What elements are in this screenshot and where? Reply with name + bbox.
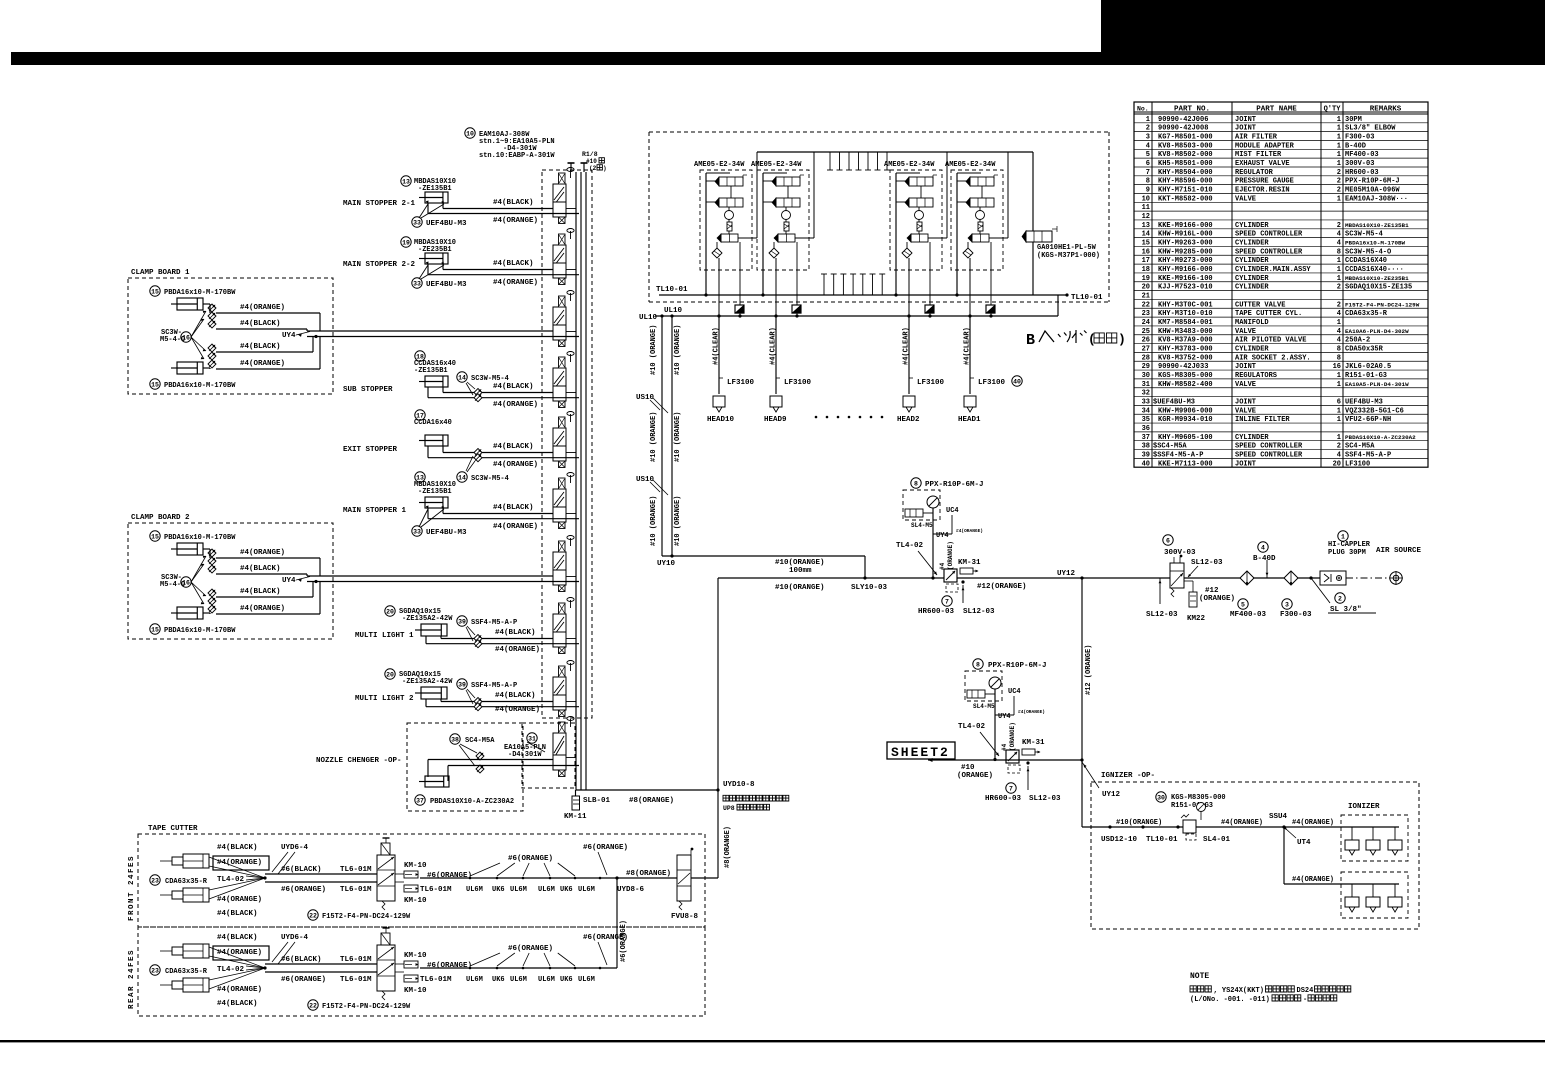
svg-text:15: 15	[151, 533, 159, 540]
ionizer nozzle 2-3	[1394, 884, 1396, 897]
svg-text:FRONT 24FES: FRONT 24FES	[128, 855, 136, 921]
svg-text:VALVE: VALVE	[1235, 328, 1256, 336]
regulator HR600-03 (7) #1	[942, 596, 952, 606]
svg-text:90990-42J033: 90990-42J033	[1158, 363, 1208, 371]
svg-text:KM-10: KM-10	[404, 952, 427, 960]
svg-text:B-40D: B-40D	[1253, 555, 1276, 563]
solenoid valve mid group 4	[970, 198, 994, 207]
svg-text:1: 1	[1337, 372, 1341, 380]
svg-text:40: 40	[1013, 378, 1021, 385]
svg-text:15: 15	[151, 288, 159, 295]
svg-text:19: 19	[402, 239, 410, 246]
svg-text:#4(ORANGE): #4(ORANGE)	[217, 896, 262, 904]
wire #4(ORANGE)	[428, 457, 579, 459]
svg-text:TL10-01: TL10-01	[656, 286, 688, 294]
svg-text:39: 39	[1142, 451, 1150, 459]
svg-text:1: 1	[1337, 416, 1341, 424]
svg-text:KM-31: KM-31	[958, 559, 981, 567]
svg-text:UL10: UL10	[639, 314, 658, 322]
svg-text:IONIZER: IONIZER	[1348, 803, 1380, 811]
joint LF3100 HEAD9	[776, 377, 780, 379]
manifold valve station 3	[553, 307, 566, 325]
speed controllers lower cluster	[208, 589, 216, 597]
nozzle HEAD9	[770, 396, 782, 407]
svg-text:PBDAS10X10-A-ZC230A2: PBDAS10X10-A-ZC230A2	[430, 798, 514, 806]
svg-text:SC3W-M5-4: SC3W-M5-4	[471, 375, 509, 383]
svg-text:KM-10: KM-10	[404, 862, 427, 870]
svg-text:JOINT: JOINT	[1235, 363, 1256, 371]
svg-text:KV8-M8502-000: KV8-M8502-000	[1158, 151, 1213, 159]
svg-text:UY12: UY12	[1057, 570, 1076, 578]
svg-text:No.: No.	[1137, 106, 1149, 113]
svg-text:PBDAS10X10-A-ZC230A2: PBDAS10X10-A-ZC230A2	[1345, 434, 1416, 441]
svg-text:PBDA16x10-M-170BW: PBDA16x10-M-170BW	[164, 382, 236, 390]
ionizer nozzle 1-2	[1372, 827, 1374, 840]
svg-text:): )	[1118, 332, 1126, 347]
svg-text:REAR 24FES: REAR 24FES	[128, 949, 136, 1009]
svg-text:JOINT: JOINT	[1235, 398, 1256, 406]
wire #4(CLEAR) HEAD9	[775, 316, 777, 394]
svg-text:UL6M: UL6M	[466, 976, 483, 984]
svg-text:4: 4	[1337, 328, 1341, 336]
svg-text:1: 1	[1337, 151, 1341, 159]
svg-text:13: 13	[1142, 222, 1150, 230]
svg-text:KGR-M9934-010: KGR-M9934-010	[1158, 416, 1213, 424]
svg-text:HEAD9: HEAD9	[764, 416, 787, 424]
svg-text:VALVE: VALVE	[1235, 407, 1256, 415]
wire #4(CLEAR) HEAD10	[718, 316, 720, 394]
wire UY4 pair to manifold	[307, 330, 553, 332]
svg-text:CYLINDER: CYLINDER	[1235, 434, 1269, 442]
speed controllers upper cluster	[208, 549, 216, 557]
nozzle HEAD1	[964, 396, 976, 407]
manifold valve station 4	[553, 368, 566, 386]
svg-text:GA010HE1-PL-5W: GA010HE1-PL-5W	[1037, 244, 1097, 252]
svg-text:14: 14	[458, 474, 466, 481]
svg-text:PBDA16x10-M-170BW: PBDA16x10-M-170BW	[164, 627, 236, 635]
ionizer nozzle 1-3	[1394, 827, 1396, 840]
svg-text:12: 12	[1142, 213, 1150, 221]
svg-text:UY4: UY4	[936, 532, 949, 540]
svg-text:HI-CAPPLER: HI-CAPPLER	[1328, 541, 1371, 549]
rail UL10	[655, 315, 1058, 317]
svg-text:CDA63x35-R: CDA63x35-R	[165, 878, 208, 886]
svg-text:R151-01-G3: R151-01-G3	[1345, 372, 1387, 380]
svg-text:#6(ORANGE): #6(ORANGE)	[281, 886, 326, 894]
svg-text:US10: US10	[636, 476, 655, 484]
wire SLB-01 #8(ORANGE)	[576, 789, 719, 791]
svg-text:KV8-M8503-000: KV8-M8503-000	[1158, 142, 1213, 150]
svg-text:KHY-M9263-000: KHY-M9263-000	[1158, 240, 1213, 248]
svg-text:#12(ORANGE): #12(ORANGE)	[977, 583, 1027, 591]
svg-text:33: 33	[413, 219, 421, 226]
svg-text:6: 6	[1146, 160, 1150, 168]
svg-text:3: 3	[1146, 134, 1150, 142]
svg-text:SL4-M5: SL4-M5	[973, 703, 995, 710]
svg-text:F15T2-F4-PN-DC24-129W: F15T2-F4-PN-DC24-129W	[322, 1003, 411, 1011]
vacuum generator group 4	[976, 211, 985, 220]
svg-text:23: 23	[151, 877, 159, 884]
svg-text:#10 (ORANGE): #10 (ORANGE)	[674, 496, 682, 546]
wires group 1	[705, 173, 707, 295]
cylinder tape cutter lower	[183, 888, 209, 902]
svg-text:KHW-M9906-000: KHW-M9906-000	[1158, 407, 1213, 415]
manifold top plugs R1/8	[570, 163, 572, 172]
svg-text:UL6M: UL6M	[510, 976, 527, 984]
note Japanese pipe port	[723, 795, 729, 801]
svg-text:1: 1	[1337, 407, 1341, 415]
svg-text:MIST FILTER: MIST FILTER	[1235, 151, 1282, 159]
svg-text:#6(ORANGE): #6(ORANGE)	[620, 920, 628, 962]
wire #4(ORANGE)	[426, 643, 579, 645]
dashed box ignizer	[1091, 782, 1419, 929]
svg-text:#6(BLACK): #6(BLACK)	[281, 866, 322, 874]
svg-text:1: 1	[1337, 160, 1341, 168]
pilot box group 1	[735, 305, 744, 313]
pilot box group 4	[986, 305, 995, 313]
svg-text:UK6: UK6	[492, 886, 505, 894]
svg-text:22: 22	[309, 912, 317, 919]
svg-text:KHY-M7151-010: KHY-M7151-010	[1158, 187, 1213, 195]
svg-text:UYD10-8: UYD10-8	[723, 781, 755, 789]
valve F15T2 cutter	[377, 945, 395, 991]
svg-text:CYLINDER: CYLINDER	[1235, 222, 1269, 230]
wire pair to cutter valve	[265, 873, 377, 875]
svg-text:JOINT: JOINT	[1235, 460, 1256, 468]
svg-text:#6(ORANGE): #6(ORANGE)	[583, 844, 628, 852]
wire #4(BLACK)	[443, 452, 553, 454]
svg-text:EXIT STOPPER: EXIT STOPPER	[343, 446, 398, 454]
svg-text:90990-42J006: 90990-42J006	[1158, 116, 1208, 124]
svg-text:KM-10: KM-10	[404, 897, 427, 905]
valve 300V-03 (6)	[1163, 535, 1173, 545]
filter group 2	[784, 222, 789, 231]
svg-text:SC3W-M5-4: SC3W-M5-4	[471, 475, 509, 483]
valve F15T2 ref (22)	[308, 1000, 318, 1010]
svg-text:UP8: UP8	[723, 805, 735, 812]
svg-text:UYD6-4: UYD6-4	[281, 934, 309, 942]
node UT4	[1286, 829, 1296, 838]
wire #4(ORANGE)	[428, 213, 579, 215]
svg-text:UC4: UC4	[1008, 688, 1021, 696]
svg-text:30PM: 30PM	[1345, 116, 1362, 124]
speed controller SSF4-M5-A-P (39) ML1	[457, 616, 467, 626]
svg-text:LF3100: LF3100	[917, 379, 945, 387]
speed controllers upper cluster	[208, 304, 216, 312]
svg-text:#10 (ORANGE): #10 (ORANGE)	[674, 412, 682, 462]
solenoid valve top group 4	[970, 177, 994, 186]
svg-text:CLAMP BOARD 2: CLAMP BOARD 2	[131, 514, 190, 522]
svg-text:UEF4BU-M3: UEF4BU-M3	[426, 220, 467, 228]
svg-text:(ORANGE): (ORANGE)	[957, 772, 993, 780]
svg-text:UYD8-6: UYD8-6	[617, 886, 645, 894]
vacuum generator group 3	[915, 211, 924, 220]
svg-text:#4(BLACK): #4(BLACK)	[493, 260, 534, 268]
svg-text:UL10: UL10	[664, 307, 683, 315]
svg-text:#4(ORANGE): #4(ORANGE)	[493, 523, 538, 531]
cylinder PBDA16x10 upper	[150, 531, 160, 541]
svg-text:#10(ORANGE): #10(ORANGE)	[775, 584, 825, 592]
svg-text:MAIN STOPPER 1: MAIN STOPPER 1	[343, 507, 407, 515]
svg-text:10: 10	[1142, 195, 1150, 203]
svg-text:SPEED CONTROLLER: SPEED CONTROLLER	[1235, 443, 1303, 451]
svg-text:40: 40	[1142, 460, 1150, 468]
svg-text:#4(CLEAR): #4(CLEAR)	[964, 327, 972, 365]
svg-text:#6(ORANGE): #6(ORANGE)	[508, 945, 553, 953]
svg-text:16: 16	[1333, 363, 1341, 371]
svg-text:16: 16	[182, 334, 190, 341]
svg-text:#4(ORANGE): #4(ORANGE)	[240, 549, 285, 557]
svg-text:KHW-M916L-000: KHW-M916L-000	[1158, 231, 1213, 239]
svg-text:9: 9	[1146, 187, 1150, 195]
svg-text:SL3/8" ELBOW: SL3/8" ELBOW	[1345, 125, 1396, 133]
svg-text:): )	[603, 165, 607, 172]
svg-text:UY12: UY12	[1102, 791, 1121, 799]
svg-text:SUB STOPPER: SUB STOPPER	[343, 386, 393, 394]
svg-text:20: 20	[1142, 284, 1150, 292]
svg-text:UK6: UK6	[560, 976, 573, 984]
svg-text:1: 1	[1337, 266, 1341, 274]
svg-text:#10(ORANGE): #10(ORANGE)	[775, 559, 825, 567]
svg-text:-ZE135B1: -ZE135B1	[414, 367, 448, 375]
svg-text:HR600-03: HR600-03	[985, 795, 1022, 803]
svg-text:#4(BLACK): #4(BLACK)	[217, 934, 258, 942]
svg-text:KV8-M37A9-000: KV8-M37A9-000	[1158, 337, 1213, 345]
dashed box ionizer 2	[1341, 872, 1408, 918]
nozzle HEAD2	[903, 396, 915, 407]
svg-text:31: 31	[528, 735, 536, 742]
joint LF3100 HEAD1	[970, 377, 974, 379]
svg-text:14: 14	[458, 374, 466, 381]
wire cutter main	[420, 877, 677, 879]
svg-text:AIR SOCKET 2.ASSY.: AIR SOCKET 2.ASSY.	[1235, 354, 1311, 362]
svg-text:$SC4-M5A: $SC4-M5A	[1153, 443, 1187, 451]
wire #4(BLACK)	[443, 208, 553, 210]
svg-text:8: 8	[1337, 345, 1341, 353]
svg-text:(ORANGE): (ORANGE)	[947, 541, 954, 570]
svg-text:SLY10-03: SLY10-03	[851, 584, 888, 592]
svg-text:AIR PILOTED VALVE: AIR PILOTED VALVE	[1235, 337, 1306, 345]
svg-text:MULTI LIGHT 1: MULTI LIGHT 1	[355, 632, 414, 640]
valve KM-11	[575, 790, 577, 796]
cylinder PBDA16x10 lower	[177, 362, 203, 374]
svg-text:TAPE CUTTER CYL.: TAPE CUTTER CYL.	[1235, 310, 1302, 318]
svg-text:#4(ORANGE): #4(ORANGE)	[495, 646, 540, 654]
svg-text:KKE-M7113-000: KKE-M7113-000	[1158, 460, 1213, 468]
svg-text:#4(CLEAR): #4(CLEAR)	[903, 327, 911, 365]
ionizer nozzle 2-2	[1372, 884, 1374, 897]
svg-text:MBDAS10X10-ZE235B1: MBDAS10X10-ZE235B1	[1345, 275, 1409, 282]
svg-text:KH5-M8501-000: KH5-M8501-000	[1158, 160, 1213, 168]
svg-text:HEAD1: HEAD1	[958, 416, 981, 424]
svg-text:SLB-01: SLB-01	[583, 797, 611, 805]
wire cutter main	[420, 967, 617, 969]
svg-text:TL4-02: TL4-02	[958, 723, 986, 731]
svg-text:33: 33	[413, 280, 421, 287]
svg-text:39: 39	[458, 618, 466, 625]
svg-text:24: 24	[1142, 319, 1150, 327]
svg-text:CYLINDER: CYLINDER	[1235, 275, 1269, 283]
svg-text:HR600-03: HR600-03	[918, 608, 955, 616]
svg-text:SPEED CONTROLLER: SPEED CONTROLLER	[1235, 248, 1303, 256]
svg-text:TL6-01M: TL6-01M	[340, 976, 372, 984]
valve SL4-M5 #2	[967, 690, 985, 698]
parts table	[1134, 102, 1428, 467]
svg-text:#4(BLACK): #4(BLACK)	[240, 343, 281, 351]
svg-text:#4(BLACK): #4(BLACK)	[240, 588, 281, 596]
check valve diamond group 3	[902, 248, 912, 258]
svg-text:#4(BLACK): #4(BLACK)	[493, 504, 534, 512]
svg-text:LF3100: LF3100	[727, 379, 755, 387]
svg-text:MULTI LIGHT 2: MULTI LIGHT 2	[355, 695, 414, 703]
svg-text:EA10A6-PLN-D4-302W: EA10A6-PLN-D4-302W	[1345, 328, 1409, 335]
svg-text:29: 29	[1142, 363, 1150, 371]
check valve diamond group 2	[769, 248, 779, 258]
svg-text:HEAD2: HEAD2	[897, 416, 920, 424]
svg-text:SPEED CONTROLLER: SPEED CONTROLLER	[1235, 231, 1303, 239]
svg-text:SHEET2: SHEET2	[891, 745, 950, 760]
svg-text:KM-31: KM-31	[1022, 739, 1045, 747]
svg-text:UY4: UY4	[282, 577, 296, 585]
svg-text:SL12-03: SL12-03	[1029, 795, 1061, 803]
pressure gauge PPX-R10P-6M-J (8) #2	[973, 659, 983, 669]
svg-text:HR600-03: HR600-03	[1345, 169, 1379, 177]
svg-text:#4(BLACK): #4(BLACK)	[493, 199, 534, 207]
svg-text:NOZZLE CHENGER -OP-: NOZZLE CHENGER -OP-	[316, 757, 402, 765]
svg-text:#4(BLACK): #4(BLACK)	[493, 443, 534, 451]
svg-text:1: 1	[1337, 381, 1341, 389]
svg-text:REMARKS: REMARKS	[1370, 106, 1402, 114]
svg-text:USD12-10: USD12-10	[1101, 836, 1138, 844]
svg-text:6: 6	[1337, 398, 1341, 406]
svg-text:PART NAME: PART NAME	[1256, 106, 1297, 114]
svg-text:REGULATOR: REGULATOR	[1235, 169, 1274, 177]
svg-text:CYLINDER: CYLINDER	[1235, 345, 1269, 353]
svg-text:KKT-M8582-000: KKT-M8582-000	[1158, 195, 1213, 203]
solenoid valve mid group 3	[909, 198, 933, 207]
clamp wiring loop	[216, 557, 320, 559]
svg-text:REGULATORS: REGULATORS	[1235, 372, 1277, 380]
svg-text:UL6M: UL6M	[466, 886, 483, 894]
wire main air line	[718, 577, 1320, 579]
svg-text:(: (	[1088, 332, 1096, 347]
valve bottom group 1	[721, 234, 738, 242]
svg-text:2: 2	[1337, 301, 1341, 309]
svg-text:8: 8	[914, 480, 918, 487]
svg-text:#4(CLEAR): #4(CLEAR)	[770, 327, 778, 365]
svg-text:CCDAS16X40: CCDAS16X40	[1345, 257, 1387, 265]
svg-text:TL4-02: TL4-02	[217, 966, 245, 974]
svg-text:KM7-M8584-001: KM7-M8584-001	[1158, 319, 1213, 327]
svg-text:(KGS-M37P1-000): (KGS-M37P1-000)	[1037, 252, 1100, 260]
svg-text:#4(ORANGE): #4(ORANGE)	[493, 217, 538, 225]
svg-text:#6(ORANGE): #6(ORANGE)	[427, 872, 472, 880]
cylinder PBDA16x10 upper	[150, 286, 160, 296]
svg-text:33: 33	[1142, 398, 1150, 406]
svg-text:SC3W-M5-4-O: SC3W-M5-4-O	[1345, 248, 1391, 256]
svg-text:CYLINDER.MAIN.ASSY: CYLINDER.MAIN.ASSY	[1235, 266, 1311, 274]
svg-text:#4(ORANGE): #4(ORANGE)	[1292, 819, 1334, 827]
svg-text:UC4: UC4	[946, 507, 959, 515]
manifold valve station 6	[553, 489, 566, 507]
svg-text:4: 4	[1337, 337, 1341, 345]
svg-text:37: 37	[1142, 434, 1150, 442]
svg-text:UEF4BU-M3: UEF4BU-M3	[1345, 398, 1383, 406]
svg-text:TL4-02: TL4-02	[217, 876, 245, 884]
svg-text:SSU4: SSU4	[1269, 813, 1288, 821]
label SHEET2	[887, 742, 955, 759]
valve bottom group 3	[911, 234, 928, 242]
svg-text:F15T2-F4-PN-DC24-129W: F15T2-F4-PN-DC24-129W	[322, 913, 411, 921]
svg-text:UL6M: UL6M	[538, 886, 555, 894]
pilot box group 3	[925, 305, 934, 313]
wire #4(BLACK)	[443, 513, 553, 515]
wires group 2	[762, 173, 764, 295]
manifold valve station 5	[553, 428, 566, 446]
svg-text:KKE-M9166-000: KKE-M9166-000	[1158, 222, 1213, 230]
wire #4(ORANGE)	[426, 706, 579, 708]
svg-text:UY4: UY4	[282, 332, 296, 340]
wire UL10 to UY10 right	[671, 316, 673, 556]
joint UEF4BU-M3 (33) for stopper 2-2	[412, 278, 422, 288]
svg-text:#4(ORANGE): #4(ORANGE)	[493, 461, 538, 469]
svg-text:2: 2	[1146, 125, 1150, 133]
svg-text:#12 (ORANGE): #12 (ORANGE)	[1085, 645, 1093, 695]
svg-text:4: 4	[1337, 310, 1341, 318]
svg-text:MBDAS10X10-ZE135B1: MBDAS10X10-ZE135B1	[1345, 222, 1409, 229]
wire #4(ORANGE)	[428, 397, 579, 399]
pilot box group 2	[792, 305, 801, 313]
manifold valve station 8	[553, 614, 566, 632]
svg-text:25: 25	[1142, 328, 1150, 336]
svg-text:4: 4	[1337, 451, 1341, 459]
svg-text:JKL6-02A0.5: JKL6-02A0.5	[1345, 363, 1391, 371]
svg-text:KKE-M9166-100: KKE-M9166-100	[1158, 275, 1213, 283]
svg-text:UT4: UT4	[1297, 839, 1311, 847]
svg-text:(L/ONo. -001. -011): (L/ONo. -001. -011)	[1190, 996, 1270, 1004]
svg-text:PBDA16x10-M-170BW: PBDA16x10-M-170BW	[164, 289, 236, 297]
svg-text:1: 1	[1337, 142, 1341, 150]
svg-text:PPX-R10P-6M-J: PPX-R10P-6M-J	[1345, 178, 1400, 186]
svg-text:KHY-M9273-000: KHY-M9273-000	[1158, 257, 1213, 265]
svg-text:22: 22	[1142, 301, 1150, 309]
svg-text:UK6: UK6	[492, 976, 505, 984]
joint SL 3/8 elbow (2)	[1309, 576, 1312, 579]
svg-text:CDA63x35-R: CDA63x35-R	[165, 968, 208, 976]
svg-text:100mm: 100mm	[789, 567, 812, 575]
svg-text:23: 23	[1142, 310, 1150, 318]
valve FVU8-8	[677, 855, 691, 901]
svg-text:15: 15	[1142, 240, 1150, 248]
svg-text:15: 15	[151, 626, 159, 633]
svg-text:SC4-M5A: SC4-M5A	[1345, 443, 1375, 451]
wires tape cutter fan	[209, 947, 265, 968]
svg-text:R1/8: R1/8	[582, 151, 598, 158]
svg-text:2: 2	[1337, 222, 1341, 230]
svg-text:KHY-M9166-000: KHY-M9166-000	[1158, 266, 1213, 274]
svg-text:LF3100: LF3100	[784, 379, 812, 387]
svg-text:#4(ORANGE): #4(ORANGE)	[1221, 819, 1263, 827]
svg-text:SPEED CONTROLLER: SPEED CONTROLLER	[1235, 451, 1303, 459]
svg-text:38: 38	[1142, 443, 1150, 451]
solenoid valve mid group 1	[719, 198, 743, 207]
svg-text:KHY-M3T0C-001: KHY-M3T0C-001	[1158, 301, 1213, 309]
joint UEF4BU-M3 (33) main stopper 1	[412, 526, 422, 536]
svg-text:SGDAQ10X15-ZE135: SGDAQ10X15-ZE135	[1345, 284, 1412, 292]
svg-text:2: 2	[1337, 187, 1341, 195]
svg-text:CCDA16x40: CCDA16x40	[414, 419, 452, 427]
svg-text:F300-03: F300-03	[1345, 134, 1374, 142]
